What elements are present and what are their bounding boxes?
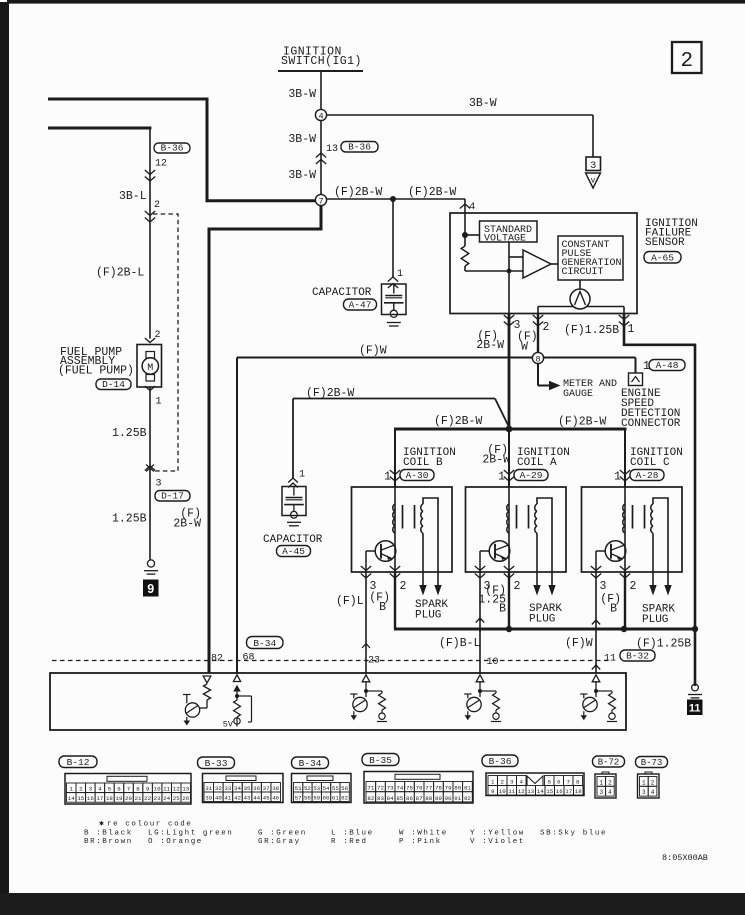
- svg-text:GR:Gray: GR:Gray: [258, 838, 301, 846]
- svg-text:3: 3: [590, 161, 596, 172]
- svg-text:2: 2: [608, 779, 612, 786]
- svg-text:(F)L: (F)L: [336, 595, 364, 608]
- svg-text:3: 3: [600, 580, 607, 593]
- svg-text:56: 56: [341, 785, 348, 792]
- svg-text:78: 78: [435, 785, 442, 792]
- svg-text:7: 7: [127, 786, 131, 793]
- svg-text:6: 6: [117, 786, 121, 793]
- svg-text:3: 3: [510, 779, 514, 786]
- svg-text:1: 1: [384, 471, 391, 484]
- svg-text:54: 54: [323, 785, 330, 792]
- svg-text:CAPACITOR: CAPACITOR: [263, 534, 323, 546]
- svg-text:3B-W: 3B-W: [469, 97, 497, 110]
- svg-text:2: 2: [630, 580, 637, 593]
- svg-text:84: 84: [387, 795, 394, 802]
- svg-text:11: 11: [604, 654, 616, 665]
- svg-text:55: 55: [332, 785, 339, 792]
- svg-text:10: 10: [154, 786, 161, 793]
- svg-text:20: 20: [125, 795, 132, 802]
- svg-text:2: 2: [680, 50, 693, 73]
- svg-text:14: 14: [68, 795, 75, 802]
- svg-text:B-72: B-72: [598, 758, 620, 768]
- svg-text:2: 2: [651, 779, 655, 786]
- svg-text:2: 2: [501, 779, 505, 786]
- svg-text:G :Green: G :Green: [258, 830, 307, 838]
- svg-text:19: 19: [115, 795, 122, 802]
- svg-text:1: 1: [397, 269, 403, 280]
- svg-text:A-65: A-65: [651, 253, 674, 264]
- svg-text:M: M: [147, 363, 153, 374]
- svg-text:14: 14: [537, 788, 544, 795]
- svg-text:2: 2: [79, 786, 83, 793]
- svg-text:(F)2B-W: (F)2B-W: [334, 186, 382, 199]
- svg-text:74: 74: [396, 785, 403, 792]
- svg-text:16: 16: [556, 788, 563, 795]
- svg-text:4: 4: [469, 201, 475, 213]
- svg-text:12: 12: [518, 788, 525, 795]
- svg-text:1: 1: [498, 471, 505, 484]
- svg-text:(F)B-L: (F)B-L: [439, 637, 481, 650]
- svg-text:W: W: [521, 341, 528, 354]
- svg-text:GAUGE: GAUGE: [563, 389, 593, 400]
- svg-text:82: 82: [367, 795, 374, 802]
- svg-text:L :Blue: L :Blue: [331, 830, 374, 838]
- svg-text:(F)1.25B: (F)1.25B: [564, 324, 619, 337]
- svg-text:34: 34: [234, 785, 241, 792]
- svg-text:11: 11: [163, 786, 170, 793]
- svg-text:6: 6: [557, 779, 561, 786]
- svg-text:53: 53: [313, 785, 320, 792]
- svg-text:44: 44: [253, 795, 260, 802]
- svg-text:92: 92: [464, 795, 471, 802]
- svg-text:2: 2: [514, 580, 521, 593]
- svg-text:76: 76: [416, 785, 423, 792]
- svg-text:1: 1: [491, 779, 495, 786]
- svg-text:36: 36: [253, 785, 260, 792]
- svg-text:5: 5: [108, 786, 112, 793]
- svg-text:PLUG: PLUG: [529, 614, 555, 626]
- svg-text:SENSOR: SENSOR: [645, 237, 685, 249]
- svg-text:2: 2: [400, 580, 407, 593]
- svg-text:1.25B: 1.25B: [112, 513, 147, 526]
- svg-text:16: 16: [87, 795, 94, 802]
- svg-text:(F)2B-L: (F)2B-L: [96, 267, 144, 280]
- svg-text:(F)W: (F)W: [359, 345, 387, 358]
- svg-text:1: 1: [299, 470, 305, 481]
- svg-text:10: 10: [499, 788, 506, 795]
- svg-text:D-14: D-14: [102, 379, 125, 390]
- svg-text:4: 4: [520, 779, 524, 786]
- svg-text:4: 4: [98, 786, 102, 793]
- svg-text:2B-W: 2B-W: [482, 454, 510, 467]
- svg-text:A-30: A-30: [406, 470, 429, 481]
- svg-text:38: 38: [272, 785, 279, 792]
- svg-text:11: 11: [508, 788, 515, 795]
- svg-text:A-47: A-47: [349, 300, 372, 311]
- svg-text:8:05X00AB: 8:05X00AB: [662, 853, 708, 863]
- svg-text:37: 37: [263, 785, 270, 792]
- svg-text:1: 1: [642, 779, 646, 786]
- svg-text:A-28: A-28: [636, 470, 659, 481]
- svg-text:23: 23: [154, 795, 161, 802]
- svg-text:V :Violet: V :Violet: [470, 838, 525, 846]
- svg-text:2B-W: 2B-W: [476, 339, 504, 352]
- svg-text:77: 77: [425, 785, 432, 792]
- svg-text:12: 12: [173, 786, 180, 793]
- svg-text:2: 2: [154, 200, 160, 211]
- svg-text:73: 73: [387, 785, 394, 792]
- svg-text:41: 41: [224, 795, 231, 802]
- svg-text:A-45: A-45: [282, 546, 305, 557]
- svg-text:75: 75: [406, 785, 413, 792]
- svg-text:1: 1: [70, 786, 74, 793]
- svg-text:B-34: B-34: [299, 758, 322, 769]
- svg-text:D-17: D-17: [161, 491, 184, 502]
- svg-text:COIL C: COIL C: [630, 457, 670, 469]
- svg-text:59: 59: [313, 795, 320, 802]
- svg-text:CONNECTOR: CONNECTOR: [621, 418, 681, 430]
- svg-text:4: 4: [608, 789, 612, 796]
- svg-text:60: 60: [323, 795, 330, 802]
- svg-text:A-48: A-48: [656, 360, 679, 371]
- svg-text:5V: 5V: [223, 720, 234, 730]
- svg-text:51: 51: [295, 785, 302, 792]
- svg-text:B :Black: B :Black: [84, 830, 133, 838]
- svg-text:B-36: B-36: [348, 142, 371, 153]
- svg-text:5: 5: [548, 779, 552, 786]
- svg-text:61: 61: [332, 795, 339, 802]
- svg-text:B: B: [610, 603, 617, 616]
- svg-text:17: 17: [96, 795, 103, 802]
- svg-text:79: 79: [445, 785, 452, 792]
- svg-text:9: 9: [146, 786, 150, 793]
- svg-text:7: 7: [567, 779, 571, 786]
- svg-text:1.25B: 1.25B: [112, 427, 147, 440]
- svg-text:68: 68: [243, 653, 255, 664]
- svg-text:P :Pink: P :Pink: [399, 838, 442, 846]
- svg-text:9: 9: [147, 582, 154, 596]
- svg-text:R :Red: R :Red: [331, 838, 368, 846]
- svg-text:31: 31: [205, 785, 212, 792]
- svg-text:87: 87: [416, 795, 423, 802]
- svg-text:13: 13: [182, 786, 189, 793]
- svg-text:(F)W: (F)W: [565, 637, 593, 650]
- svg-text:39: 39: [205, 795, 212, 802]
- svg-text:3: 3: [642, 789, 646, 796]
- svg-text:10: 10: [487, 657, 499, 668]
- svg-text:15: 15: [546, 788, 553, 795]
- svg-text:86: 86: [406, 795, 413, 802]
- svg-text:3: 3: [89, 786, 93, 793]
- svg-text:7: 7: [318, 197, 323, 207]
- svg-text:2: 2: [155, 330, 161, 341]
- svg-text:24: 24: [163, 795, 170, 802]
- svg-text:3B-W: 3B-W: [288, 169, 316, 182]
- svg-text:(F)2B-W: (F)2B-W: [306, 387, 354, 400]
- svg-text:3: 3: [599, 789, 603, 796]
- svg-text:18: 18: [575, 788, 582, 795]
- svg-text:B-36: B-36: [489, 756, 512, 767]
- svg-text:13: 13: [527, 788, 534, 795]
- svg-text:PLUG: PLUG: [642, 614, 668, 626]
- svg-text:91: 91: [454, 795, 461, 802]
- svg-text:13: 13: [326, 144, 338, 155]
- svg-text:B-35: B-35: [369, 755, 392, 766]
- svg-text:1: 1: [614, 471, 621, 484]
- svg-text:B-33: B-33: [205, 758, 228, 769]
- svg-text:17: 17: [565, 788, 572, 795]
- svg-text:33: 33: [224, 785, 231, 792]
- svg-text:(F)2B-W: (F)2B-W: [558, 416, 606, 429]
- svg-text:(F)2B-W: (F)2B-W: [408, 186, 456, 199]
- svg-text:8: 8: [535, 355, 540, 365]
- svg-text:COIL A: COIL A: [517, 457, 557, 469]
- svg-text:4: 4: [318, 112, 323, 122]
- svg-text:8: 8: [136, 786, 140, 793]
- svg-text:3B-W: 3B-W: [288, 88, 316, 101]
- svg-text:LG:Light green: LG:Light green: [148, 830, 233, 838]
- svg-text:COIL B: COIL B: [403, 457, 443, 469]
- svg-text:B-12: B-12: [67, 757, 90, 768]
- svg-text:46: 46: [272, 795, 279, 802]
- svg-text:3: 3: [156, 479, 162, 490]
- svg-text:81: 81: [464, 785, 471, 792]
- svg-text:(F)2B-W: (F)2B-W: [434, 415, 482, 428]
- svg-text:CAPACITOR: CAPACITOR: [312, 287, 372, 299]
- svg-text:85: 85: [396, 795, 403, 802]
- svg-text:re colour code: re colour code: [107, 821, 192, 829]
- svg-text:42: 42: [234, 795, 241, 802]
- svg-text:(FUEL PUMP): (FUEL PUMP): [58, 365, 134, 378]
- svg-text:35: 35: [244, 785, 251, 792]
- svg-text:26: 26: [182, 795, 189, 802]
- svg-text:B: B: [499, 603, 506, 616]
- svg-text:43: 43: [244, 795, 251, 802]
- svg-text:9: 9: [491, 788, 495, 795]
- svg-text:1: 1: [628, 323, 635, 336]
- svg-text:1: 1: [599, 779, 603, 786]
- svg-text:32: 32: [215, 785, 222, 792]
- svg-text:✱: ✱: [99, 820, 104, 829]
- svg-text:SWITCH(IG1): SWITCH(IG1): [281, 55, 362, 68]
- svg-text:3B-L: 3B-L: [119, 190, 147, 203]
- svg-text:25: 25: [173, 795, 180, 802]
- svg-text:52: 52: [304, 785, 311, 792]
- svg-text:62: 62: [341, 795, 348, 802]
- svg-text:B-32: B-32: [626, 651, 649, 662]
- svg-text:O :Orange: O :Orange: [148, 838, 203, 846]
- svg-text:2B-W: 2B-W: [173, 518, 201, 531]
- svg-text:45: 45: [263, 795, 270, 802]
- svg-text:SB:Sky blue: SB:Sky blue: [540, 830, 607, 838]
- svg-text:A-29: A-29: [520, 470, 543, 481]
- svg-text:90: 90: [445, 795, 452, 802]
- svg-text:BR:Brown: BR:Brown: [84, 838, 133, 846]
- svg-text:15: 15: [77, 795, 84, 802]
- svg-text:VOLTAGE: VOLTAGE: [484, 234, 526, 245]
- svg-text:71: 71: [367, 785, 374, 792]
- svg-text:(F)1.25B: (F)1.25B: [636, 638, 691, 651]
- svg-text:PLUG: PLUG: [415, 610, 441, 622]
- svg-text:4: 4: [651, 789, 655, 796]
- svg-text:11: 11: [689, 703, 701, 715]
- svg-text:v: v: [591, 177, 596, 186]
- svg-text:B-73: B-73: [641, 758, 663, 768]
- svg-text:80: 80: [454, 785, 461, 792]
- svg-text:83: 83: [377, 795, 384, 802]
- svg-text:40: 40: [215, 795, 222, 802]
- svg-text:18: 18: [106, 795, 113, 802]
- svg-text:Y :Yellow: Y :Yellow: [470, 830, 525, 838]
- svg-text:88: 88: [425, 795, 432, 802]
- svg-text:B-34: B-34: [253, 638, 276, 649]
- svg-text:21: 21: [135, 795, 142, 802]
- svg-text:W :White: W :White: [399, 830, 448, 838]
- svg-text:72: 72: [377, 785, 384, 792]
- svg-text:22: 22: [144, 795, 151, 802]
- svg-text:89: 89: [435, 795, 442, 802]
- svg-text:2: 2: [543, 321, 550, 334]
- svg-text:57: 57: [295, 795, 302, 802]
- svg-text:8: 8: [576, 779, 580, 786]
- svg-text:58: 58: [304, 795, 311, 802]
- svg-text:3B-W: 3B-W: [288, 133, 316, 146]
- svg-text:B: B: [379, 601, 386, 614]
- svg-text:82: 82: [211, 654, 223, 665]
- svg-text:B-36: B-36: [161, 143, 184, 154]
- svg-text:12: 12: [155, 159, 167, 170]
- svg-text:CIRCUIT: CIRCUIT: [562, 267, 604, 278]
- svg-text:1: 1: [156, 397, 162, 408]
